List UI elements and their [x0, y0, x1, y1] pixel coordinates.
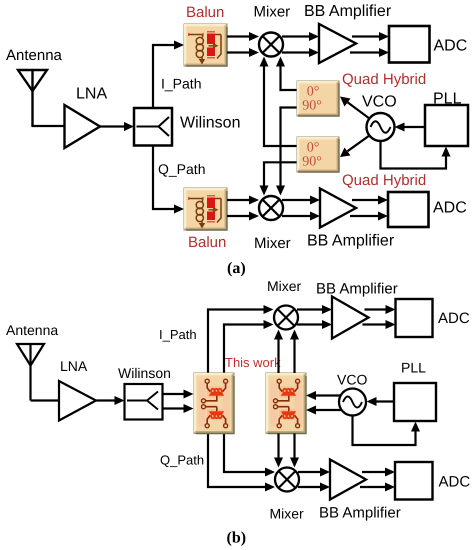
- svg-text:VCO: VCO: [337, 372, 367, 388]
- wires mixer Q to BB amp (b): [298, 468, 330, 492]
- svg-text:Mixer: Mixer: [254, 4, 291, 21]
- antenna symbol (a): [18, 70, 47, 126]
- mixer Q (b): [275, 468, 299, 492]
- wires BB amp to ADC bottom (a): [350, 196, 388, 221]
- svg-text:ADC: ADC: [433, 200, 467, 217]
- power divider Wilkinson box (a): [134, 108, 172, 146]
- svg-text:Wilinson: Wilinson: [118, 365, 171, 381]
- wires mixer I to BB amp (a): [282, 32, 319, 57]
- LO line A lower segment to mixer Q (a): [260, 162, 298, 195]
- svg-text:LNA: LNA: [76, 86, 107, 103]
- balun2 transformer box (b): [266, 373, 306, 434]
- svg-text:Mixer: Mixer: [270, 506, 305, 522]
- svg-text:This work: This work: [225, 355, 281, 370]
- PLL box (a): [425, 105, 468, 146]
- svg-text:Quad Hybrid: Quad Hybrid: [342, 71, 426, 88]
- svg-text:I_Path: I_Path: [159, 327, 197, 342]
- wire balun1 to mixer Q upper (b): [224, 434, 275, 477]
- wires balun to mixer I (a): [227, 32, 259, 57]
- wires BB amp to ADC top (a): [350, 32, 389, 57]
- LO line B lower segment to mixer Q (a): [276, 108, 297, 196]
- amplifier BB top (b): [332, 297, 369, 339]
- svg-text:LNA: LNA: [60, 358, 88, 374]
- wire antenna to LNA (b): [31, 399, 60, 401]
- svg-text:BB Amplifier: BB Amplifier: [316, 281, 398, 298]
- amplifier BB top (a): [319, 24, 356, 63]
- amplifier BB bottom (b): [330, 460, 366, 500]
- mixer I (a): [259, 33, 283, 57]
- arrows Wilkinson to balun1 (b): [163, 390, 194, 414]
- arrow VCO to quad hybrid top (a): [340, 97, 369, 119]
- svg-text:VCO: VCO: [362, 94, 397, 111]
- svg-text:BB Amplifier: BB Amplifier: [319, 505, 401, 522]
- wire Q path Wilkinson to balun (a): [153, 146, 184, 214]
- wires balun2 to mixer Q LO (b): [274, 434, 299, 468]
- mixer Q (a): [259, 196, 283, 220]
- svg-text:PLL: PLL: [401, 360, 426, 376]
- ADC box bottom (b): [395, 462, 433, 500]
- svg-text:90°: 90°: [302, 155, 322, 170]
- oscillator VCO (a): [367, 113, 395, 141]
- svg-text:Q_Path: Q_Path: [158, 161, 205, 177]
- svg-text:Antenna: Antenna: [6, 322, 58, 338]
- ADC box top (b): [396, 299, 433, 337]
- wires mixer Q to BB amp (a): [282, 196, 320, 221]
- balun B1 top (a): [184, 24, 227, 66]
- power divider Wilkinson box (b): [125, 384, 163, 420]
- svg-text:0°: 0°: [307, 85, 320, 100]
- svg-text:Wilinson: Wilinson: [180, 115, 240, 132]
- LO line A upper segment to mixer I (a): [260, 57, 298, 147]
- mixer I (b): [274, 306, 298, 330]
- arrow PLL to VCO (b): [367, 397, 395, 406]
- wire balun1 to mixer I upper (b): [208, 305, 274, 373]
- wires BB amp to ADC top (b): [363, 305, 396, 329]
- wires BB amp to ADC bottom (b): [360, 468, 395, 492]
- ADC box bottom (a): [388, 192, 429, 227]
- svg-text:(b): (b): [227, 530, 247, 547]
- antenna symbol (b): [17, 344, 44, 401]
- oscillator VCO (b): [339, 389, 366, 416]
- svg-text:Antenna: Antenna: [6, 47, 63, 64]
- feedback wire VCO to PLL (b): [353, 416, 421, 446]
- balun B2 bottom (a): [184, 188, 227, 230]
- wire I path Wilkinson to balun (a): [153, 41, 184, 109]
- svg-text:BB Amplifier: BB Amplifier: [304, 3, 392, 20]
- svg-text:Mixer: Mixer: [254, 235, 291, 252]
- LO line B upper segment to mixer I (a): [276, 57, 297, 91]
- svg-text:ADC: ADC: [439, 474, 471, 491]
- arrow PLL to VCO (a): [395, 123, 426, 132]
- svg-text:(a): (a): [227, 260, 246, 277]
- svg-text:0°: 0°: [307, 141, 320, 156]
- ADC box top (a): [389, 26, 430, 63]
- balun1 transformer box (b): [194, 373, 234, 434]
- wire balun1 to mixer Q lower (b): [208, 434, 275, 492]
- arrows VCO to balun2 (b): [306, 391, 342, 415]
- svg-text:Quad Hybrid: Quad Hybrid: [342, 172, 426, 189]
- PLL box (b): [394, 383, 436, 421]
- svg-text:90°: 90°: [302, 99, 322, 114]
- wire antenna to LNA (a): [33, 125, 65, 126]
- wires balun2 to mixer I LO (b): [274, 330, 299, 374]
- svg-text:BB Amplifier: BB Amplifier: [307, 233, 395, 250]
- svg-text:ADC: ADC: [438, 310, 470, 327]
- svg-text:ADC: ADC: [434, 38, 468, 55]
- wire balun1 to mixer I lower (b): [224, 320, 274, 373]
- amplifier LNA (b): [59, 381, 96, 421]
- quad hybrid box top (a): [297, 81, 339, 116]
- amplifier LNA (a): [65, 105, 101, 148]
- svg-text:I_Path: I_Path: [161, 76, 201, 92]
- feedback wire VCO to PLL (a): [381, 141, 451, 169]
- svg-text:Q_Path: Q_Path: [160, 453, 204, 468]
- wires balun to mixer Q (a): [227, 196, 259, 221]
- arrow LNA to Wilkinson (b): [96, 396, 125, 405]
- svg-text:Balun: Balun: [186, 4, 224, 21]
- wires mixer I to BB amp (b): [297, 305, 332, 329]
- quad hybrid box bottom (a): [297, 137, 339, 172]
- amplifier BB bottom (a): [320, 189, 356, 228]
- arrow VCO to quad hybrid bottom (a): [340, 136, 369, 158]
- arrow LNA to Wilkinson (a): [100, 122, 134, 131]
- svg-text:Balun: Balun: [188, 234, 226, 251]
- svg-text:Mixer: Mixer: [267, 278, 302, 294]
